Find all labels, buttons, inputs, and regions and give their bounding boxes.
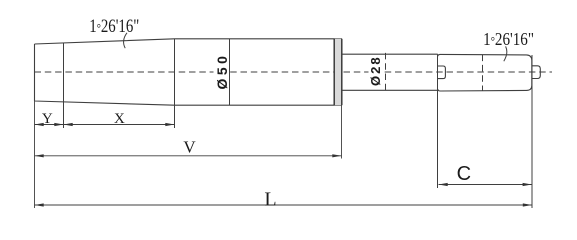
taper Y/X boundary edge + extension — [63, 43, 65, 128]
dimension V line — [35, 155, 342, 157]
right taper leader arc — [504, 46, 507, 61]
dimension L left arrow — [35, 203, 44, 206]
svg-text:L: L — [264, 189, 276, 211]
collar band left border — [333, 39, 335, 105]
left taper section outline — [35, 39, 175, 105]
dimension Y right arrow — [54, 123, 63, 126]
dimension V right arrow — [332, 154, 341, 157]
dimension X line — [64, 124, 175, 126]
dimension C left arrow — [439, 183, 448, 186]
dimension L line — [35, 204, 533, 206]
D28 section top edge — [342, 53, 438, 55]
step nub — [438, 66, 446, 79]
dimension C line — [439, 184, 532, 186]
right taper section outline — [438, 54, 532, 91]
svg-text:Y: Y — [42, 111, 53, 127]
dimension Y line — [35, 124, 64, 126]
collar band right border / cylinder end face — [341, 39, 343, 105]
dimension C right arrow — [523, 183, 532, 186]
svg-text:Ø50: Ø50 — [214, 53, 230, 90]
dimension Y left arrow — [35, 123, 44, 126]
D28 dashed edge — [385, 53, 387, 92]
cylinder D50 top edge — [175, 38, 343, 40]
left end face extension line — [34, 101, 36, 208]
centerline — [35, 71, 553, 73]
svg-text:Ø28: Ø28 — [368, 55, 383, 86]
svg-text:C: C — [457, 163, 471, 185]
mask under D28 label — [369, 57, 382, 85]
dimension X left arrow — [64, 123, 73, 126]
right taper dashed edge — [482, 55, 484, 91]
dimension V left arrow — [35, 154, 44, 157]
cylinder D50 mid edge — [229, 39, 231, 105]
dimension X right arrow — [165, 123, 174, 126]
mask under D50 label — [214, 57, 228, 90]
svg-text:X: X — [114, 111, 125, 127]
extension line below cylinder end — [341, 105, 343, 158]
collar gray band — [334, 39, 341, 105]
dimension L right arrow — [523, 203, 532, 206]
svg-text:V: V — [183, 137, 196, 156]
D28 section bottom edge — [342, 89, 438, 91]
step face at C start + extension — [437, 54, 439, 188]
cylinder D50 bottom edge — [175, 104, 343, 106]
cylinder D50 left face + extension — [174, 39, 176, 128]
end tip — [532, 66, 541, 79]
right end face + extension — [531, 55, 533, 208]
left taper leader arc — [124, 33, 127, 48]
